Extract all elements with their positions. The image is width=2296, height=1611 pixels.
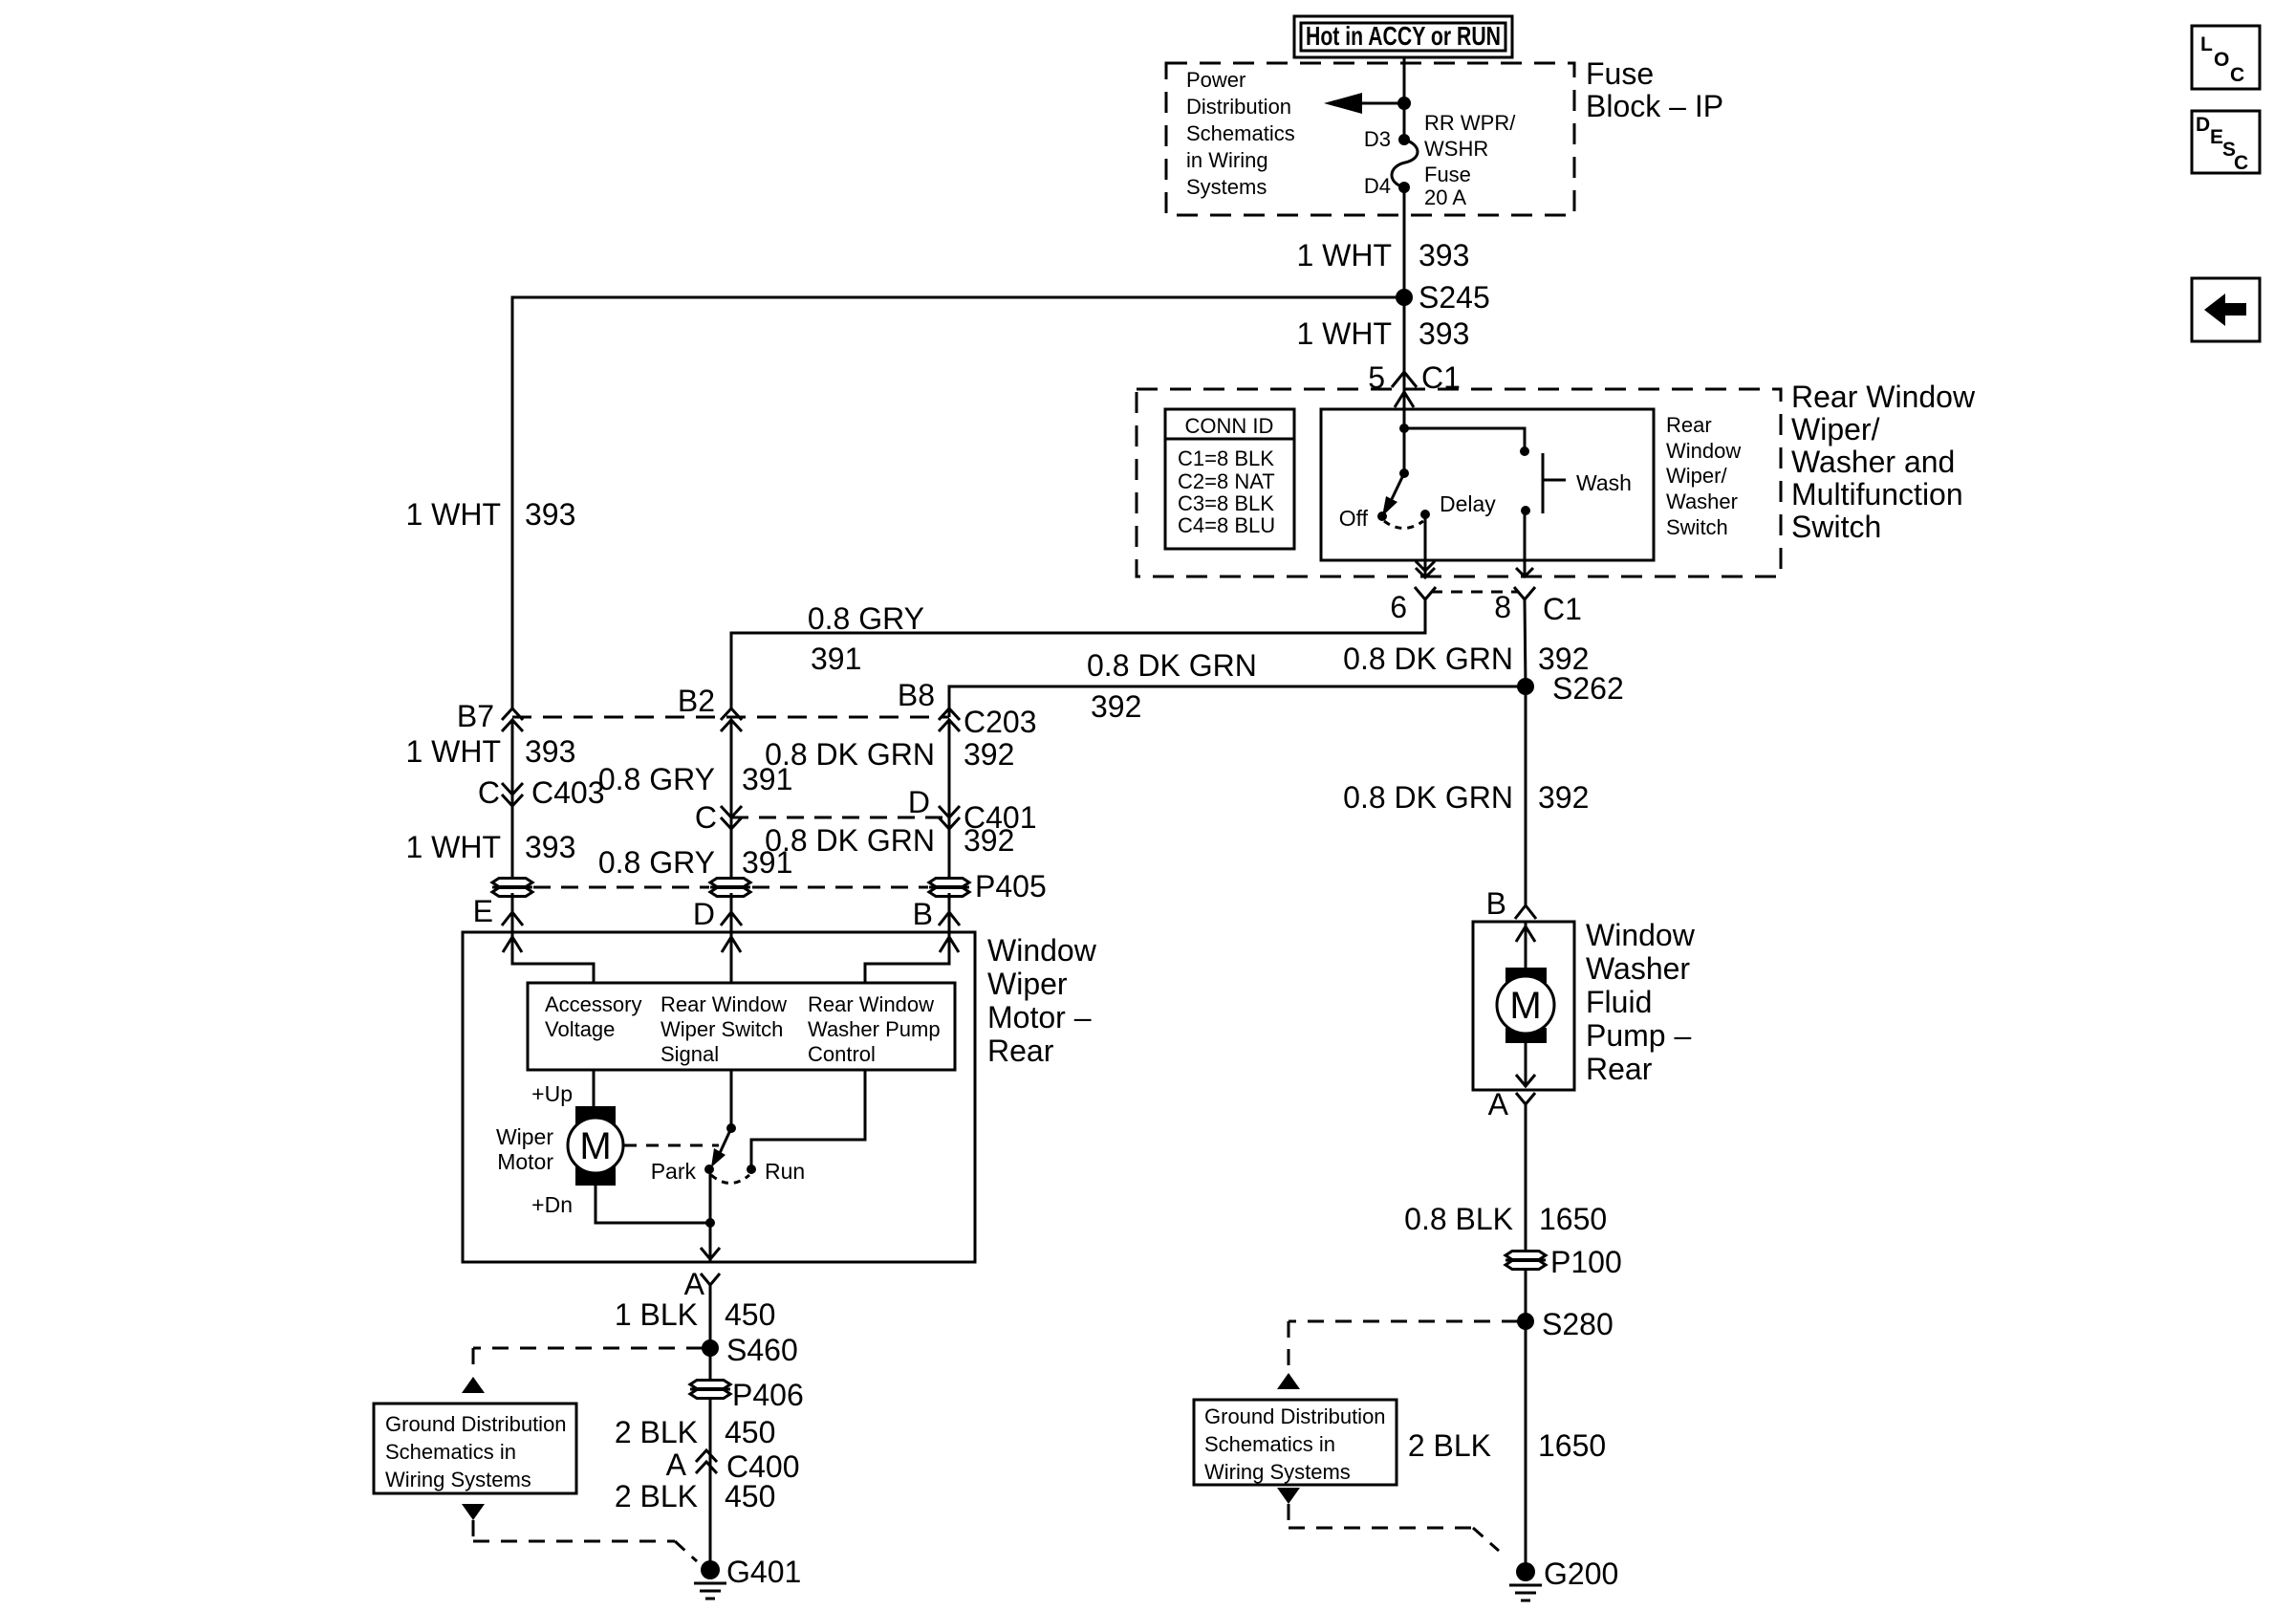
svg-text:Run: Run	[765, 1159, 805, 1184]
connector row C401	[695, 785, 1037, 835]
svg-text:A: A	[1488, 1087, 1509, 1121]
svg-text:Window: Window	[1586, 918, 1696, 952]
wire label 2 BLK 450	[615, 1415, 776, 1449]
svg-text:D: D	[908, 785, 930, 819]
svg-text:Wiper/: Wiper/	[1791, 412, 1880, 446]
delay contact	[1384, 491, 1496, 529]
wire pump A to G200	[1525, 1104, 1527, 1572]
switch dashed box	[1137, 389, 1781, 577]
svg-text:6: 6	[1390, 590, 1407, 624]
svg-text:Washer: Washer	[1666, 490, 1738, 513]
fuse RR WPR/WSHR 20 A	[1364, 111, 1516, 209]
svg-text:Systems: Systems	[1186, 175, 1267, 199]
svg-text:Wiring Systems: Wiring Systems	[1204, 1460, 1351, 1484]
wire to wash upper contact	[1404, 428, 1529, 456]
window wiper motor rear box	[463, 932, 975, 1262]
svg-text:Window: Window	[987, 933, 1097, 968]
wire label 1 WHT 393	[405, 830, 575, 864]
svg-text:Washer: Washer	[1586, 951, 1690, 986]
svg-text:in Wiring: in Wiring	[1186, 148, 1268, 172]
svg-text:Rear Window: Rear Window	[661, 992, 787, 1016]
svg-text:C: C	[478, 775, 500, 810]
motor terminal label box	[528, 983, 955, 1070]
switch solid box	[1321, 409, 1654, 560]
svg-text:1650: 1650	[1539, 1202, 1607, 1236]
wire B2 connector to P405	[730, 720, 733, 887]
svg-text:20 A: 20 A	[1424, 185, 1466, 209]
svg-text:2 BLK: 2 BLK	[1408, 1428, 1491, 1463]
svg-text:C3=8 BLK: C3=8 BLK	[1178, 491, 1274, 515]
svg-text:1 WHT: 1 WHT	[1296, 316, 1392, 351]
svg-text:D3: D3	[1364, 127, 1391, 151]
svg-text:Pump –: Pump –	[1586, 1018, 1691, 1053]
svg-text:392: 392	[1091, 689, 1141, 724]
svg-text:1 WHT: 1 WHT	[405, 830, 501, 864]
wire B8 to S262 (dk grn)	[949, 686, 1526, 717]
svg-text:D4: D4	[1364, 174, 1391, 198]
svg-text:Park: Park	[651, 1159, 697, 1184]
svg-text:C: C	[695, 800, 717, 835]
svg-text:450: 450	[725, 1415, 775, 1449]
svg-text:0.8 DK GRN: 0.8 DK GRN	[765, 823, 935, 858]
label 0.8 DK GRN 392 (B8 upper)	[765, 737, 1014, 772]
svg-text:0.8 DK GRN: 0.8 DK GRN	[1343, 780, 1513, 815]
wire S262 to pump pin B	[1525, 686, 1527, 905]
label 0.8 DK GRN 392 (B8 lower)	[765, 823, 1014, 858]
svg-text:Motor: Motor	[497, 1149, 553, 1174]
svg-text:C1=8 BLK: C1=8 BLK	[1178, 446, 1274, 470]
svg-text:Multifunction: Multifunction	[1791, 477, 1963, 512]
svg-text:391: 391	[811, 642, 861, 676]
svg-text:Wash: Wash	[1576, 470, 1632, 495]
label 0.8 GRY 391 (B2 lower)	[598, 845, 793, 880]
svg-text:A: A	[666, 1448, 687, 1482]
svg-text:0.8 GRY: 0.8 GRY	[808, 601, 924, 636]
wire washer pump control to run	[751, 1070, 865, 1169]
pin A motor	[684, 1267, 720, 1301]
svg-text:392: 392	[964, 823, 1014, 858]
svg-text:M: M	[579, 1125, 611, 1167]
note power distribution schematics	[1186, 68, 1295, 199]
wire D into label box	[722, 932, 741, 983]
wire pin8 to S262	[1525, 599, 1526, 686]
svg-text:B2: B2	[678, 684, 715, 718]
svg-text:0.8 GRY: 0.8 GRY	[598, 845, 715, 880]
svg-text:Schematics: Schematics	[1186, 121, 1295, 145]
svg-text:S460: S460	[726, 1333, 798, 1367]
svg-text:CONN ID: CONN ID	[1185, 414, 1274, 438]
svg-text:Ground Distribution: Ground Distribution	[1204, 1404, 1386, 1428]
label 0.8 DK GRN 392 (horizontal)	[1087, 648, 1257, 724]
arrow to power distribution schematics	[1324, 93, 1411, 114]
svg-text:C403: C403	[531, 775, 605, 810]
svg-text:A: A	[684, 1267, 705, 1301]
label 0.8 GRY 391 (B2 upper)	[598, 762, 793, 796]
svg-text:C1: C1	[1543, 592, 1582, 626]
park/run switch	[624, 1070, 805, 1184]
svg-text:B: B	[913, 897, 933, 931]
svg-text:Wiring Systems: Wiring Systems	[385, 1468, 531, 1491]
svg-text:Voltage: Voltage	[545, 1017, 615, 1041]
svg-text:Motor –: Motor –	[987, 1000, 1092, 1034]
svg-text:8: 8	[1494, 590, 1511, 624]
CONN ID table	[1165, 409, 1294, 549]
svg-text:Washer Pump: Washer Pump	[808, 1017, 941, 1041]
svg-text:M: M	[1509, 985, 1541, 1027]
svg-text:WSHR: WSHR	[1424, 137, 1488, 161]
wire label 2 BLK 1650	[1408, 1428, 1606, 1463]
fuse block IP dashed box	[1166, 63, 1574, 215]
pin B pump	[1486, 886, 1536, 921]
svg-text:L: L	[2200, 33, 2213, 55]
svg-text:Hot in ACCY or RUN: Hot in ACCY or RUN	[1306, 21, 1501, 51]
wire E into label box	[503, 932, 594, 983]
svg-text:Control: Control	[808, 1042, 876, 1066]
wire motor to park junction	[596, 1186, 715, 1228]
window washer fluid pump box	[1473, 922, 1574, 1090]
svg-text:Schematics in: Schematics in	[1204, 1432, 1335, 1456]
wire fuse to switch pin 5	[1403, 187, 1406, 389]
wire switch pin 6	[1416, 514, 1435, 577]
wire into switch	[1395, 389, 1414, 478]
ground distribution note right	[1194, 1321, 1518, 1551]
ground G401	[694, 1555, 801, 1599]
splice S460	[702, 1333, 798, 1367]
wire pin6 to B2 (gray)	[731, 599, 1425, 709]
DESC icon	[2192, 111, 2260, 174]
svg-text:Rear: Rear	[1586, 1052, 1653, 1086]
svg-text:Rear: Rear	[1666, 413, 1712, 437]
connector row C203 (B7 B2 B8)	[457, 678, 1037, 739]
svg-text:RR WPR/: RR WPR/	[1424, 111, 1516, 135]
svg-text:Schematics in: Schematics in	[385, 1440, 516, 1464]
wire B7 connector to C403	[511, 720, 514, 887]
title window wiper motor - rear	[987, 933, 1097, 1068]
wire label 1 WHT 393	[405, 734, 575, 769]
svg-text:P406: P406	[732, 1378, 804, 1412]
svg-text:0.8 DK GRN: 0.8 DK GRN	[1343, 642, 1513, 676]
svg-text:E: E	[2210, 126, 2223, 148]
svg-text:Power: Power	[1186, 68, 1245, 92]
svg-text:393: 393	[525, 497, 575, 532]
svg-text:1 WHT: 1 WHT	[405, 734, 501, 769]
svg-text:B8: B8	[898, 678, 935, 712]
svg-text:2 BLK: 2 BLK	[615, 1479, 698, 1513]
connector C403	[478, 775, 605, 810]
wire switch pin 8	[1516, 511, 1533, 577]
splice S245	[1396, 280, 1490, 315]
svg-text:0.8 DK GRN: 0.8 DK GRN	[1087, 648, 1257, 683]
wiper motor M	[496, 1070, 623, 1217]
wire label 1 WHT 393	[1296, 316, 1469, 351]
svg-text:Wiper: Wiper	[496, 1124, 553, 1149]
svg-text:450: 450	[725, 1297, 775, 1332]
svg-text:Window: Window	[1666, 439, 1741, 463]
wire label 2 BLK 450	[615, 1479, 776, 1513]
svg-text:+Up: +Up	[531, 1081, 573, 1106]
svg-text:450: 450	[725, 1479, 775, 1513]
wires P405 to motor box	[511, 893, 514, 932]
svg-text:+Dn: +Dn	[531, 1192, 573, 1217]
connector row P405	[492, 869, 1047, 903]
svg-text:2 BLK: 2 BLK	[615, 1415, 698, 1449]
svg-text:Rear: Rear	[987, 1034, 1054, 1068]
wire B8 connector to P405	[948, 720, 951, 887]
svg-text:1 WHT: 1 WHT	[405, 497, 501, 532]
svg-text:1650: 1650	[1538, 1428, 1606, 1463]
svg-text:E: E	[473, 894, 493, 928]
svg-text:Fuse: Fuse	[1586, 56, 1654, 91]
back arrow icon	[2192, 278, 2260, 341]
svg-text:Wiper Switch: Wiper Switch	[661, 1017, 783, 1041]
svg-text:1 WHT: 1 WHT	[1296, 238, 1392, 272]
wire label 1 WHT 393	[1296, 238, 1469, 272]
svg-text:393: 393	[1419, 238, 1469, 272]
label 0.8 DK GRN 392	[1343, 642, 1589, 676]
connector C400	[666, 1448, 800, 1484]
LOC icon	[2192, 26, 2260, 89]
label 0.8 GRY 391 (top)	[808, 601, 924, 676]
label 0.8 DK GRN 392 (pump)	[1343, 780, 1589, 815]
svg-text:392: 392	[964, 737, 1014, 772]
ground distribution note left	[374, 1348, 703, 1561]
connector C1 pins 6 and 8	[1390, 587, 1582, 626]
svg-text:Delay: Delay	[1440, 491, 1496, 516]
svg-text:P405: P405	[975, 869, 1047, 903]
svg-text:Signal: Signal	[661, 1042, 719, 1066]
wire B into label box	[865, 932, 959, 983]
svg-text:0.8 BLK: 0.8 BLK	[1404, 1202, 1513, 1236]
switch label	[1666, 413, 1741, 539]
svg-text:O: O	[2214, 49, 2229, 71]
svg-text:S245: S245	[1419, 280, 1490, 315]
svg-text:S280: S280	[1542, 1307, 1614, 1341]
svg-text:Fuse: Fuse	[1424, 163, 1471, 186]
heavy feed wire	[1403, 57, 1406, 140]
svg-text:Accessory: Accessory	[545, 992, 641, 1016]
svg-text:Switch: Switch	[1666, 515, 1728, 539]
wire park to pin A	[701, 1169, 720, 1262]
svg-text:393: 393	[525, 734, 575, 769]
svg-text:Fluid: Fluid	[1586, 985, 1652, 1019]
svg-text:C203: C203	[964, 705, 1037, 739]
svg-text:Rear Window: Rear Window	[808, 992, 934, 1016]
svg-text:Distribution: Distribution	[1186, 95, 1291, 119]
svg-text:Off: Off	[1339, 506, 1369, 531]
svg-text:393: 393	[1419, 316, 1469, 351]
svg-text:C: C	[2230, 64, 2244, 86]
svg-text:0.8 GRY: 0.8 GRY	[598, 762, 715, 796]
connector C1 pin 5	[1368, 360, 1461, 395]
svg-text:P100: P100	[1550, 1245, 1622, 1279]
svg-text:Wiper: Wiper	[987, 967, 1068, 1001]
svg-text:C: C	[2234, 152, 2248, 174]
splice S262	[1517, 671, 1624, 706]
svg-text:B7: B7	[457, 699, 494, 733]
title rear window wiper/washer and multifunction switch	[1791, 380, 1976, 544]
wire label 1 BLK 450	[615, 1297, 776, 1332]
title Fuse Block - IP	[1586, 56, 1723, 123]
svg-text:393: 393	[525, 830, 575, 864]
ground G200	[1509, 1557, 1618, 1600]
wiper arm toward Off	[1339, 473, 1404, 531]
svg-text:Switch: Switch	[1791, 510, 1881, 544]
svg-text:D: D	[693, 897, 715, 931]
svg-text:391: 391	[742, 762, 792, 796]
svg-text:Wiper/: Wiper/	[1666, 464, 1727, 488]
wash switch	[1521, 453, 1632, 515]
svg-text:Block – IP: Block – IP	[1586, 89, 1723, 123]
svg-text:Washer and: Washer and	[1791, 445, 1955, 479]
wire S245 to B7	[512, 297, 1404, 709]
svg-text:C4=8 BLU: C4=8 BLU	[1178, 513, 1275, 537]
pins E D B	[473, 894, 960, 931]
svg-text:B: B	[1486, 886, 1506, 921]
svg-text:G200: G200	[1544, 1557, 1618, 1591]
connector P100	[1505, 1245, 1622, 1279]
splice S280	[1517, 1307, 1614, 1341]
svg-text:392: 392	[1538, 780, 1589, 815]
connector P406	[690, 1378, 804, 1412]
svg-text:S262: S262	[1552, 671, 1624, 706]
wire label 0.8 BLK 1650	[1404, 1202, 1607, 1236]
pump motor M	[1497, 922, 1554, 1087]
svg-text:Rear Window: Rear Window	[1791, 380, 1976, 414]
svg-text:1 BLK: 1 BLK	[615, 1297, 698, 1332]
wire label 1 WHT 393 (left)	[405, 497, 575, 532]
svg-text:C2=8 NAT: C2=8 NAT	[1178, 469, 1275, 493]
svg-text:Ground Distribution: Ground Distribution	[385, 1412, 567, 1436]
title window washer fluid pump - rear	[1586, 918, 1696, 1086]
wire motor A to G401	[709, 1285, 712, 1570]
pin A pump	[1488, 1087, 1535, 1121]
svg-text:G401: G401	[726, 1555, 801, 1589]
power label box Hot in ACCY or RUN	[1294, 16, 1512, 57]
svg-text:D: D	[2196, 114, 2210, 136]
